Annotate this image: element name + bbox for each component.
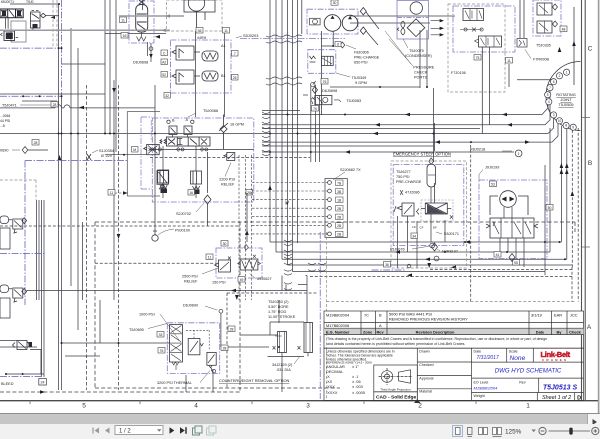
- R8J0218 circle 1: [470, 148, 522, 157]
- wire bottom staircase horizontals: [270, 242, 572, 272]
- wire top-left verticals: [105, 0, 148, 152]
- svg-text:J9J0199: J9J0199: [485, 166, 499, 170]
- orifice S1J0354: [87, 149, 114, 160]
- right content rows: [472, 362, 584, 392]
- svg-text:E.G. Number: E.G. Number: [326, 329, 350, 334]
- svg-text:Rev: Rev: [519, 380, 526, 384]
- svg-text:650 PSI: 650 PSI: [354, 61, 368, 65]
- wire upper-right horizontals: [303, 16, 455, 95]
- svg-text:5: 5: [82, 403, 86, 410]
- layout icon single (selected): [453, 426, 463, 437]
- svg-text:Approval: Approval: [419, 376, 433, 380]
- svg-text:2200 PSI: 2200 PSI: [219, 178, 235, 182]
- svg-text:...0064: ...0064: [0, 114, 10, 118]
- svg-text:T5J0083: T5J0083: [346, 99, 361, 103]
- svg-text:B: B: [379, 312, 382, 317]
- svg-text:11.00" STROKE: 11.00" STROKE: [268, 315, 296, 319]
- svg-text:C: C: [588, 46, 593, 53]
- svg-text:.XXX: .XXX: [326, 384, 335, 389]
- svg-text:PRE-CHARGE: PRE-CHARGE: [354, 56, 380, 60]
- svg-text:Sheet 1 of 2: Sheet 1 of 2: [542, 395, 571, 401]
- svg-text:Check: Check: [569, 329, 582, 334]
- svg-text:76: 76: [323, 80, 327, 84]
- svg-text:CF: CF: [420, 226, 424, 230]
- svg-text:7: 7: [549, 86, 551, 90]
- wire dashed option top: [95, 222, 575, 388]
- pilot dashed arrow: [115, 192, 128, 194]
- svg-text:30: 30: [333, 1, 337, 5]
- svg-text:33: 33: [159, 333, 163, 337]
- svg-text:EO Level: EO Level: [474, 380, 489, 384]
- wire dashed counterweight box: [227, 293, 318, 388]
- next view icon: [207, 426, 217, 435]
- wire motor box downlinks: [500, 238, 524, 267]
- svg-text:T5J0471: T5J0471: [2, 104, 17, 108]
- svg-text:JCC: JCC: [570, 312, 578, 317]
- svg-text:S2J0702: S2J0702: [176, 212, 191, 216]
- svg-text:1000 PSI: 1000 PSI: [139, 313, 155, 317]
- svg-text:EMERGENCY STEER OPTION: EMERGENCY STEER OPTION: [393, 152, 451, 157]
- relief R1: [188, 339, 200, 355]
- svg-text:28: 28: [53, 103, 57, 107]
- svg-text:Zone: Zone: [363, 329, 373, 334]
- svg-text:Checked: Checked: [419, 363, 433, 367]
- svg-text:3: 3: [553, 113, 555, 117]
- svg-text:41: 41: [496, 253, 500, 257]
- svg-text:D6J0698: D6J0698: [133, 61, 148, 65]
- svg-text:10: 10: [558, 119, 562, 123]
- svg-text:11: 11: [507, 59, 511, 63]
- svg-text:44RH: 44RH: [197, 36, 207, 40]
- wire right buses to rotating joint: [262, 90, 558, 152]
- orifice row: [460, 28, 483, 32]
- svg-text:Date: Date: [536, 329, 545, 334]
- svg-text:11: 11: [224, 29, 228, 33]
- brake cluster 1: [0, 216, 27, 318]
- main title block outline: [324, 348, 584, 401]
- svg-text:A: A: [186, 118, 189, 122]
- main control valve V1 top-left (bold): [0, 9, 23, 18]
- steering valve manifold F7J0136: [448, 4, 515, 134]
- tag 11: [223, 28, 230, 34]
- svg-text:3200 PSI THERMAL: 3200 PSI THERMAL: [157, 381, 192, 385]
- prev view icon: [193, 426, 203, 435]
- reservoir tank T1: [184, 0, 215, 31]
- svg-text:65J0076: 65J0076: [390, 248, 405, 252]
- wire dashed vertical 118: [118, 85, 120, 390]
- svg-text:S2J0682 7X: S2J0682 7X: [340, 168, 361, 172]
- svg-text:T5J0695: T5J0695: [129, 328, 144, 332]
- svg-text:47J2086: 47J2086: [405, 191, 420, 195]
- wire dashed vertical 240: [239, 222, 241, 392]
- stacked spool: [170, 325, 183, 363]
- relief RV3: [402, 203, 414, 216]
- wire top corner: [6, 4, 59, 29]
- gray de-emphasized buses: [0, 16, 184, 30]
- enclosure rect: [11, 21, 26, 42]
- gauge P9J0100: [152, 229, 190, 242]
- svg-text:None: None: [510, 355, 526, 362]
- tag 16 accumulator: [121, 33, 128, 39]
- zoom slider: [549, 430, 591, 432]
- sheet frame right border: [582, 0, 586, 401]
- svg-text:T5J0349: T5J0349: [352, 76, 367, 80]
- accumulator/valve group left of motor: [372, 123, 459, 270]
- svg-text:M19B802004: M19B802004: [326, 312, 350, 317]
- svg-text:16 GPM: 16 GPM: [230, 122, 244, 126]
- svg-text:F7R000B: F7R000B: [533, 58, 550, 62]
- work cyl heads: [158, 170, 202, 194]
- wire verticals under condenser: [420, 30, 434, 162]
- relief valve 2500psi: [219, 260, 231, 272]
- svg-text:LS: LS: [412, 225, 416, 229]
- prev page button: [105, 428, 110, 434]
- emergency steer option: [391, 152, 467, 269]
- check diamonds: [360, 8, 366, 35]
- svg-text:28: 28: [34, 141, 38, 145]
- pump block dark: [1, 31, 19, 41]
- wire dashed bottom: [0, 391, 240, 393]
- svg-text:N4R8107: N4R8107: [442, 250, 458, 254]
- svg-text:150 PSI: 150 PSI: [212, 281, 226, 285]
- tolerance cell: [326, 350, 395, 365]
- tag 11 accumulator: [120, 17, 127, 23]
- relief R2: [207, 352, 216, 365]
- check D6J0698 right: [312, 87, 337, 94]
- pilot tag M: [132, 147, 139, 153]
- svg-text:RELIEF: RELIEF: [221, 183, 235, 187]
- svg-text:9: 9: [572, 125, 574, 129]
- wire steer box downlinks: [398, 187, 446, 268]
- svg-text:34: 34: [412, 234, 416, 238]
- svg-text:S5J0203: S5J0203: [243, 33, 258, 38]
- svg-text:M19B802004: M19B802004: [474, 386, 499, 391]
- svg-text:25: 25: [233, 76, 237, 80]
- svg-text:RELIEF: RELIEF: [184, 280, 198, 284]
- svg-text:Date: Date: [474, 350, 482, 354]
- svg-text:T5J0505: T5J0505: [558, 102, 573, 107]
- layout icon two-up: [479, 428, 488, 435]
- flow control 16GPM: [219, 115, 228, 150]
- svg-text:R8J0218: R8J0218: [470, 148, 485, 152]
- svg-text:11: 11: [121, 18, 125, 22]
- wire counterweight links: [186, 300, 282, 392]
- svg-text:4: 4: [194, 403, 198, 410]
- pump P1 group top-right: [240, 0, 380, 115]
- svg-text:A: A: [379, 323, 382, 328]
- tag 25: [232, 75, 239, 81]
- svg-text:49: 49: [240, 278, 244, 282]
- svg-text:D6J0690: D6J0690: [183, 304, 198, 308]
- svg-text:D6J0698: D6J0698: [322, 89, 337, 93]
- svg-text:EF: EF: [433, 226, 437, 230]
- svg-text:T5J0: T5J0: [26, 0, 34, 4]
- cylinder C2: [304, 323, 313, 353]
- wire right-mid verticals: [545, 126, 567, 275]
- legal text cell: [324, 335, 584, 349]
- terminal strip S2J0682: [239, 155, 361, 300]
- svg-text:P9J0100: P9J0100: [175, 229, 190, 233]
- status toolbar: [0, 424, 600, 439]
- tag C: [161, 50, 168, 56]
- reducing valve RV1: [172, 46, 218, 61]
- svg-text:C: C: [163, 51, 166, 55]
- svg-text:8: 8: [337, 43, 339, 47]
- break squiggles on trunks: [262, 35, 326, 290]
- counterweight cylinder group: [183, 232, 575, 399]
- svg-text:and details contained herein i: and details contained herein is prohibit…: [327, 342, 465, 346]
- svg-text:This drawing is the property o: This drawing is the property of Link-Bel…: [327, 337, 547, 341]
- svg-text:Scale: Scale: [509, 350, 518, 354]
- svg-text:D: D: [577, 395, 581, 401]
- tag 16m: [188, 190, 195, 196]
- brake valve T5J0335: [509, 0, 576, 87]
- svg-text:7: 7: [234, 52, 236, 56]
- svg-text:65J0071: 65J0071: [1, 0, 14, 4]
- pilot bus stub: [105, 154, 147, 156]
- revision table: [324, 311, 584, 335]
- svg-text:1: 1: [526, 403, 530, 410]
- svg-text:69J0627: 69J0627: [257, 277, 272, 281]
- svg-text:B: B: [172, 119, 175, 123]
- svg-text:44 PSI: 44 PSI: [0, 119, 10, 123]
- svg-text:28: 28: [247, 191, 251, 195]
- window right edge: [598, 0, 600, 413]
- svg-text:.XXXX: .XXXX: [326, 390, 338, 395]
- holding valve T5J0695: [129, 313, 235, 386]
- svg-text:S1J0354: S1J0354: [99, 149, 114, 153]
- svg-text:COUNTERWEIGHT REMOVAL OPTION: COUNTERWEIGHT REMOVAL OPTION: [219, 378, 290, 383]
- left column components: [0, 102, 58, 319]
- pilot tag boxes: [169, 126, 192, 135]
- wire dashed P9J area: [0, 226, 240, 263]
- third angle projection box: [374, 365, 418, 392]
- svg-text:34J2129 (2): 34J2129 (2): [272, 363, 293, 367]
- svg-text:A: A: [587, 324, 592, 331]
- svg-text:76: 76: [160, 349, 164, 353]
- reducing valve RV2: [172, 70, 218, 84]
- check diamond corner: [41, 13, 46, 18]
- dashed boundary left: [0, 180, 36, 200]
- svg-text:T5J0335: T5J0335: [536, 44, 551, 48]
- check valve S2J0702: [176, 152, 247, 242]
- svg-text:16: 16: [123, 34, 127, 38]
- ports B A: [172, 118, 189, 123]
- svg-text:.031 DIA: .031 DIA: [276, 368, 291, 372]
- condenser T5J0075: [385, 1, 444, 80]
- svg-text:CHECK: CHECK: [414, 71, 428, 75]
- layout icon continuous: [468, 428, 473, 437]
- svg-text:A2: A2: [162, 60, 166, 64]
- svg-text:T5J0075: T5J0075: [409, 49, 424, 53]
- svg-text:B1: B1: [221, 74, 226, 78]
- svg-text:1: 1: [518, 152, 520, 156]
- svg-text:BLEED: BLEED: [1, 382, 14, 386]
- svg-text:Material: Material: [419, 390, 432, 394]
- zoom out circle: [539, 427, 546, 434]
- svg-text:T5J0066: T5J0066: [203, 108, 218, 113]
- svg-text:7/31/2017: 7/31/2017: [477, 355, 499, 361]
- CAD cell: [374, 392, 418, 401]
- dashed box around tank: [167, 0, 223, 31]
- manifold S5J0203: [161, 33, 258, 98]
- svg-text:36: 36: [385, 263, 389, 267]
- svg-text:16: 16: [189, 191, 193, 195]
- svg-text:E8J0171: E8J0171: [444, 232, 459, 236]
- layout icon two-up continuous: [493, 428, 502, 437]
- port row on bus: [150, 148, 254, 150]
- zone letters right: [587, 46, 593, 332]
- svg-text:CRANES: CRANES: [542, 358, 568, 362]
- svg-text:(CONDENSER): (CONDENSER): [405, 54, 433, 58]
- tag A2: [161, 59, 168, 65]
- relief RL1: [224, 153, 235, 161]
- valve spool MV2: [490, 218, 534, 238]
- svg-text:REMOVED PREVIOUS REVISION HIST: REMOVED PREVIOUS REVISION HISTORY: [389, 317, 468, 322]
- page number field: [115, 426, 163, 435]
- zone tick marker triangle: [414, 399, 420, 403]
- wire bottom-left links: [0, 300, 170, 356]
- internal dashed: [186, 330, 209, 350]
- svg-text:36: 36: [198, 29, 202, 33]
- tags: [157, 332, 164, 338]
- horizontal scrollbar: [0, 413, 600, 425]
- check F7R000B: [517, 39, 550, 62]
- svg-text:28: 28: [230, 327, 234, 331]
- accumulator A1 (filter capsule): [129, 0, 154, 62]
- last page button: [180, 427, 186, 434]
- svg-text:2: 2: [418, 403, 422, 410]
- svg-text:F8J0306: F8J0306: [354, 51, 369, 55]
- svg-text:2500 PSI: 2500 PSI: [182, 275, 198, 279]
- svg-text:Weight: Weight: [474, 394, 485, 398]
- svg-text:Revision Description: Revision Description: [416, 329, 455, 334]
- wire top-left horizontals: [0, 94, 105, 101]
- svg-text:CAD - Solid Edge: CAD - Solid Edge: [376, 394, 416, 400]
- wire mid verticals: [114, 80, 155, 300]
- svg-text:PRE-CHARGE: PRE-CHARGE: [396, 180, 422, 184]
- svg-text:5: 5: [547, 93, 549, 97]
- svg-text:DWG HYD SCHEMATIC: DWG HYD SCHEMATIC: [495, 368, 562, 375]
- wire center trunk verticals: [270, 0, 298, 272]
- zone ticks bottom: [30, 400, 476, 404]
- svg-text:1 / 2: 1 / 2: [119, 428, 131, 434]
- svg-text:32: 32: [165, 94, 169, 98]
- svg-text:M: M: [133, 148, 136, 152]
- svg-text:7C: 7C: [364, 312, 369, 317]
- Link-Belt logo: [541, 350, 571, 362]
- svg-text:± .0005: ± .0005: [352, 390, 365, 395]
- priority valve: [463, 9, 484, 21]
- manifold T5J0066: [149, 108, 255, 202]
- wire dashed steer-right border: [310, 145, 572, 302]
- svg-text:± 1°: ± 1°: [352, 364, 359, 369]
- solenoid valve SV1: [425, 203, 447, 214]
- zoom in circle: [592, 427, 599, 434]
- left label rows: [417, 362, 471, 389]
- svg-text:3: 3: [306, 403, 310, 410]
- next page button: [170, 427, 175, 434]
- accumulator A2: [427, 164, 436, 187]
- label top-left tiny: [1, 0, 34, 4]
- steer spool: [479, 36, 502, 47]
- gray dashed stubs: [53, 0, 57, 48]
- tag 36: [196, 28, 203, 34]
- svg-text:2: 2: [559, 74, 561, 78]
- svg-text:T5J6277: T5J6277: [396, 170, 411, 174]
- tag 52: [161, 72, 168, 78]
- charge valve T5J0083: [311, 96, 361, 112]
- terminal dashed wires: [239, 155, 328, 300]
- svg-text:4: 4: [548, 100, 550, 104]
- bottom-left valve cluster: [0, 341, 46, 386]
- svg-text:Third Angle Projection: Third Angle Projection: [380, 387, 411, 391]
- svg-text:750 PSI: 750 PSI: [396, 175, 410, 179]
- svg-text:1.75" ROD: 1.75" ROD: [268, 310, 286, 314]
- svg-text:EAR: EAR: [554, 312, 562, 317]
- svg-text:9 GPM: 9 GPM: [355, 81, 367, 85]
- svg-text:F7J0136: F7J0136: [451, 71, 466, 75]
- wire left long bus: [0, 133, 300, 135]
- svg-text:Rev: Rev: [377, 329, 385, 334]
- zone ticks right: [582, 118, 590, 248]
- zone numbers: [82, 403, 530, 410]
- svg-text:B: B: [588, 160, 592, 167]
- svg-text:75: 75: [476, 56, 480, 60]
- svg-text:Drawn: Drawn: [419, 350, 429, 354]
- tag 7: [232, 51, 239, 57]
- option border verticals: [319, 232, 321, 399]
- pilot filter: [157, 171, 168, 189]
- cylinder piping: [240, 322, 308, 356]
- tags: [490, 181, 497, 187]
- svg-text:3.50" BORE: 3.50" BORE: [268, 305, 289, 309]
- svg-text:50: 50: [548, 206, 552, 210]
- svg-text:53: 53: [491, 182, 495, 186]
- svg-text:1: 1: [566, 70, 568, 74]
- svg-text:By: By: [557, 329, 563, 334]
- svg-text:11: 11: [208, 255, 212, 259]
- rotating joint T5J0505: [545, 62, 581, 131]
- svg-text:30: 30: [223, 242, 227, 246]
- svg-text:PORTS: PORTS: [414, 76, 427, 80]
- svg-text:PRESSURE: PRESSURE: [413, 66, 434, 70]
- reducer block: [31, 11, 41, 32]
- wire manifold risers: [196, 31, 225, 117]
- main spool MV1: [160, 137, 210, 146]
- svg-text:T5J0253 (2): T5J0253 (2): [268, 300, 289, 304]
- pilot manifold left: [105, 112, 168, 197]
- pilot select valve: [144, 144, 160, 154]
- svg-text:55: 55: [514, 261, 518, 265]
- relief block 69J0627: [182, 241, 272, 285]
- cylinder C1: [278, 332, 287, 353]
- svg-text:52: 52: [162, 73, 166, 77]
- wire left risers to bus: [0, 340, 17, 342]
- wire left verticals: [59, 4, 83, 390]
- tag 28m: [246, 190, 253, 196]
- svg-text:24: 24: [41, 381, 45, 385]
- pilot tag 11b: [108, 190, 115, 196]
- svg-text:A1: A1: [221, 44, 226, 48]
- svg-text:± .003: ± .003: [352, 384, 363, 389]
- tag 32: [164, 93, 171, 99]
- svg-text:0690: 0690: [0, 149, 8, 153]
- svg-text:125%: 125%: [505, 428, 522, 435]
- svg-text:...8: ...8: [0, 124, 5, 128]
- svg-text:6: 6: [553, 80, 555, 84]
- sheet frame bottom border: [0, 400, 598, 402]
